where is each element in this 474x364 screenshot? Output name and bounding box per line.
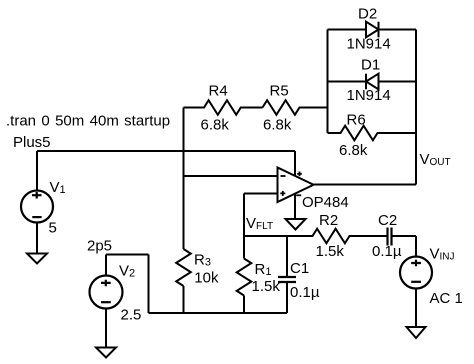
op-amp V- power pin <box>294 194 296 219</box>
V2 plus mark <box>101 280 111 287</box>
resistor R6 <box>328 126 417 141</box>
wire op-amp output <box>314 184 417 186</box>
svg-text:Plus5: Plus5 <box>13 134 51 151</box>
wire diode-box left rail <box>327 30 329 134</box>
op-amp inverting mark <box>281 175 286 177</box>
svg-text:C2: C2 <box>378 212 397 229</box>
wire Plus5 rail <box>37 150 295 152</box>
wire D2 anode <box>328 29 367 31</box>
wire VFLT rail and resistor R2 <box>244 229 388 244</box>
capacitor C2 plates <box>388 228 392 246</box>
voltage source V2 <box>90 276 123 309</box>
svg-text:AC 1: AC 1 <box>430 290 463 307</box>
resistor R5 <box>263 100 328 115</box>
svg-text:6.8k: 6.8k <box>201 117 230 134</box>
svg-text:V1: V1 <box>50 179 66 196</box>
svg-text:1.5k: 1.5k <box>252 278 281 295</box>
op-amp V+ mark <box>297 172 302 177</box>
wire 2p5 horizontal <box>106 254 149 256</box>
wire D1 anode <box>379 81 417 83</box>
svg-text:6.8k: 6.8k <box>339 142 368 159</box>
wire R1 top lead <box>243 236 245 259</box>
VINJ plus mark <box>411 260 421 267</box>
svg-text:1N914: 1N914 <box>347 87 391 104</box>
wire non-inverting drop to VFLT <box>243 194 245 237</box>
wire C2 to VINJ <box>392 235 417 237</box>
svg-text:1N914: 1N914 <box>347 36 391 53</box>
resistor R4 <box>184 100 263 115</box>
svg-text:R2: R2 <box>319 212 338 229</box>
svg-text:OP484: OP484 <box>302 194 349 211</box>
svg-text:2p5: 2p5 <box>87 238 112 255</box>
op-amp U1 OP484 triangle <box>278 168 314 203</box>
wire V2 bottom <box>105 309 107 348</box>
wire non-inverting input <box>244 193 278 195</box>
svg-text:10k: 10k <box>194 270 219 287</box>
V1 plus mark <box>32 192 42 199</box>
resistor R1 <box>237 259 252 296</box>
ground op-amp <box>286 219 306 230</box>
svg-text:0.1µ: 0.1µ <box>290 284 320 301</box>
wire VINJ drop <box>415 236 417 257</box>
op-amp V+ power pin <box>294 151 296 176</box>
wire C1 top lead <box>286 236 288 277</box>
V1 minus mark <box>32 216 41 218</box>
svg-text:5: 5 <box>49 220 57 237</box>
wire C1 bottom lead <box>286 282 288 313</box>
svg-text:VINJ: VINJ <box>430 246 455 263</box>
diode D2 cathode bar <box>378 22 380 38</box>
svg-text:D1: D1 <box>361 57 380 74</box>
wire VINJ bottom <box>415 289 417 328</box>
svg-text:C1: C1 <box>290 260 309 277</box>
op-amp non-inverting mark <box>280 191 285 196</box>
svg-text:R4: R4 <box>209 83 228 100</box>
svg-text:VFLT: VFLT <box>246 215 273 232</box>
wire R1 bottom lead <box>243 296 245 314</box>
wire node line from R4 down to R3 <box>183 108 185 250</box>
svg-text:R3: R3 <box>194 252 211 269</box>
wire inverting input <box>184 175 278 177</box>
diode D1 <box>366 74 379 90</box>
wire 2p5 drop to bottom rail <box>148 255 150 314</box>
svg-text:6.8k: 6.8k <box>263 117 292 134</box>
svg-text:V2: V2 <box>119 263 135 280</box>
wire V1 top drop <box>36 151 38 191</box>
svg-text:0.1µ: 0.1µ <box>372 243 402 260</box>
VINJ minus mark <box>411 281 421 283</box>
ground V2 <box>96 348 116 358</box>
voltage source V1 <box>21 191 53 223</box>
svg-text:2.5: 2.5 <box>121 307 142 324</box>
op-amp V- mark <box>296 194 301 196</box>
svg-text:R6: R6 <box>347 112 366 129</box>
svg-text:R1: R1 <box>255 261 272 278</box>
resistor R3 <box>176 249 191 286</box>
voltage source VINJ AC 1 <box>400 257 432 289</box>
wire D1 cathode <box>328 81 367 83</box>
svg-text:.tran 0 50m 40m startup: .tran 0 50m 40m startup <box>6 113 170 130</box>
V2 minus mark <box>101 301 111 303</box>
diode D1 cathode bar <box>365 74 367 90</box>
wire R3 bottom <box>183 286 185 313</box>
wire V1 bottom <box>36 223 38 254</box>
svg-text:D2: D2 <box>358 5 377 22</box>
wire diode-box right rail VOUT <box>415 30 417 185</box>
svg-text:R5: R5 <box>270 83 289 100</box>
ground VINJ <box>407 327 426 338</box>
ground V1 <box>27 254 47 264</box>
wire D2 cathode <box>379 29 417 31</box>
wire bottom rail <box>149 312 288 314</box>
svg-text:VOUT: VOUT <box>420 151 451 168</box>
diode D2 <box>366 22 379 38</box>
svg-text:1.5k: 1.5k <box>316 243 345 260</box>
wire V2 top lead <box>105 255 107 276</box>
capacitor C1 plates <box>278 277 296 282</box>
